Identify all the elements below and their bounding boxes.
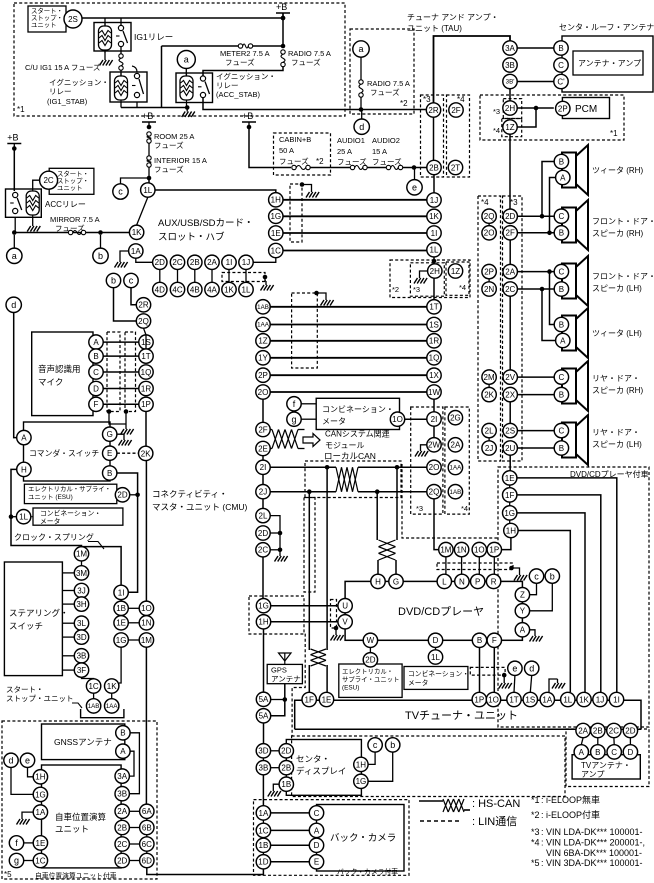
connector 5A lower [256,709,270,723]
svg-text:B: B [559,320,564,329]
wire 1M down to 6A [145,647,147,804]
wire 2B to 1J [433,175,435,193]
svg-text:AUDIO1: AUDIO1 [337,136,365,145]
svg-text:*1: *1 [17,105,25,114]
svg-text:フューズ: フューズ [291,57,321,67]
connector 2D AUX bottom [153,255,167,269]
junction 1E drop [325,465,330,470]
wire trunk 1W-2I [433,399,435,412]
connector Y DVD [515,604,529,618]
wire 2D to C [517,215,554,217]
dashed variant box *2 CABIN+B [274,133,331,175]
svg-text:モジュール: モジュール [325,441,364,450]
wire 3D-2D [271,750,280,752]
relay switch ACC [10,192,22,213]
wire 1I-1B [120,600,122,602]
svg-text:1D: 1D [258,858,268,867]
svg-text:1G: 1G [504,509,515,518]
wire steering stub [62,636,74,638]
svg-text:AUX/USB/SDカード・: AUX/USB/SDカード・ [158,218,254,229]
wire link 6D [129,860,139,862]
fuse METER2 7.5A [238,44,252,48]
wire 1H-V [271,621,338,623]
connector P DVD [471,574,485,588]
junction ESU 2D [135,493,140,498]
svg-text:6C: 6C [142,840,152,849]
wire [488,384,490,387]
svg-text:*4: *4 [459,283,466,292]
connector B tweeter RH [554,154,568,168]
svg-text:スタート・: スタート・ [6,685,44,694]
dashed column box *3 [503,196,523,461]
wire drop to 1E lower [326,665,328,694]
twisted pair local CAN to TV tuner [311,649,327,666]
wire [367,167,386,169]
node d (top) [354,119,369,134]
wire 2A to C [517,271,554,273]
wire 2H to 1T [433,278,435,299]
wire 1E-1I [283,232,427,234]
svg-text:1Z: 1Z [451,267,460,276]
wire [503,675,505,679]
wire 2H-2P [517,107,554,109]
connector 1I start-stop [114,585,128,599]
wire 2U to B [517,447,554,449]
connector 2F CMU [256,422,270,436]
svg-text:B: B [559,444,564,453]
wire RADIO fuse to ACC_STAB switch [203,67,283,76]
connector B rear RH [554,387,568,401]
connector 6A harness [140,804,154,818]
svg-text:スロット・ハブ: スロット・ハブ [158,231,225,243]
svg-text:: VIN LDA-DK*** 200001-,: : VIN LDA-DK*** 200001-, [541,838,645,848]
wire drop H [376,492,378,540]
connector 2A alt [448,438,462,452]
wire 1E-1N [128,622,139,624]
connector 2C start-stop [40,171,58,189]
wire 2F to twisted pair [270,429,272,431]
svg-text:2F: 2F [506,229,515,238]
connector 2I CMU right [427,412,441,426]
svg-text:3B: 3B [259,764,269,773]
svg-text:1A: 1A [542,695,552,704]
svg-text:(IG1_STAB): (IG1_STAB) [47,97,88,106]
wire coil to ground [104,51,106,56]
connector 1T TV tuner [507,692,521,706]
svg-text:コンビネーション・: コンビネーション・ [40,509,101,518]
connector 2R TAU [426,103,440,117]
wire harness to DVD [478,557,480,574]
svg-text:1M: 1M [440,546,451,555]
wire row link [211,270,213,283]
position calc unit box [42,765,122,868]
wire 2C to B [517,288,554,290]
svg-text:2C: 2C [117,840,127,849]
connector 3L steering [74,616,88,630]
connector 2Q CMU [136,314,150,328]
svg-text:*3: *3 [531,827,540,837]
dashed shield box [292,293,318,368]
connector E back camera [309,855,323,869]
wire drop to TV tuner 1F [308,492,310,650]
svg-text:b: b [98,251,103,261]
fuse INTERIOR 15A [147,156,151,167]
svg-text:2J: 2J [259,488,267,497]
node e bottom [20,753,34,767]
fuse AUDIO1 25A [350,165,367,169]
PCM box [562,98,609,119]
connector 2D ESU [115,488,129,502]
connector C back camera [309,806,323,820]
svg-text:2Q: 2Q [138,317,149,326]
svg-text:2K: 2K [484,391,494,400]
connector 1O pair [139,601,153,615]
dashed corner DVD variant [402,464,498,538]
junction tweeter LH A [540,287,545,292]
svg-text:A: A [314,826,320,835]
wire 3B-2B [271,767,280,769]
svg-text:メータ: メータ [408,678,428,687]
svg-text:25 A: 25 A [337,147,352,156]
svg-text:フロント・ドア・: フロント・ドア・ [592,217,654,226]
dashed shield U/V [331,600,337,629]
wire [488,438,490,441]
svg-text:3B: 3B [505,61,515,70]
svg-text:: i-ELOOP無車: : i-ELOOP無車 [541,794,600,805]
connector 1G position [33,787,47,801]
ESU box right [339,664,402,697]
antenna amp box [573,51,643,75]
connector 1P DVD harness [487,542,501,556]
wire bus 2S to +B [82,17,283,19]
svg-text:3F: 3F [77,666,86,675]
junction tweeter LH B [547,269,552,274]
connector 2J TAU alt [482,441,496,455]
connector 2R CMU [136,298,150,312]
connector 4D AUX lower [153,282,167,296]
junction splice DVD [509,566,514,571]
svg-text:1T: 1T [509,695,518,704]
svg-text:2G: 2G [450,414,461,423]
svg-text:1Y: 1Y [258,354,268,363]
wire 1H to 1P [502,538,511,550]
connector 2X TAU speaker out [503,387,517,401]
svg-text:(ESU): (ESU) [342,685,359,692]
dashed variant box mid [390,260,470,298]
svg-text:2C: 2C [258,546,268,555]
wire 1J to 1C edge [253,258,276,263]
connector 1Q TAU [427,351,441,365]
connector 6B harness [140,820,154,834]
svg-text:d: d [359,122,364,132]
node d left [6,297,21,312]
dashed boundary GPS/display variant [292,634,305,736]
svg-text:A: A [93,338,99,347]
svg-text:フューズ: フューズ [225,57,255,67]
svg-text:2D: 2D [281,747,291,756]
connector B antenna [554,41,568,55]
svg-text:フューズ: フューズ [370,87,400,97]
svg-text:*2: *2 [531,810,540,820]
wire 2R to 2B [433,117,435,161]
svg-text:*5: *5 [4,870,12,879]
connector 2E CMU [256,441,270,455]
ground ACC coil [27,222,40,232]
svg-text:e: e [25,756,30,766]
fuse AUDIO2 15A [386,165,402,169]
svg-text:1H: 1H [271,196,281,205]
wire 2X to B [517,394,554,396]
connector 1G DVD [503,506,517,520]
wire coil ground [32,217,34,222]
dashed variant box *1 (ignition relays) [14,3,345,116]
relay IG1 box [94,23,131,52]
dashed column box *3 mid [411,407,443,514]
svg-text:*4: *4 [481,198,489,207]
wire [148,143,150,156]
svg-text:TVチューナ・ユニット: TVチューナ・ユニット [405,709,518,722]
svg-text:スイッチ: スイッチ [9,621,43,631]
connector A back camera [309,823,323,837]
connector 1AA start-stop unit [105,699,119,713]
svg-text:b: b [390,740,395,750]
speaker front door RH [562,200,588,250]
dashed mic shield 2 [125,332,136,412]
connector 2F TAU [449,103,463,117]
svg-text:3H: 3H [76,600,86,609]
wire 1A-C [271,812,310,814]
svg-text:2B: 2B [281,764,291,773]
connector 1P TV tuner [472,692,486,706]
wire 1H to TV 1L [518,531,570,693]
svg-text:F: F [94,400,99,409]
connector D back camera [309,838,323,852]
wire link 6A [129,810,139,812]
svg-text:Y: Y [520,607,526,616]
connector 2D display [279,744,293,758]
svg-text:2P: 2P [484,268,494,277]
wire 1L to 2H [433,257,435,264]
connector 1I TAU [427,226,441,240]
svg-text:3A: 3A [117,772,127,781]
wire 1A-1C [262,820,264,823]
svg-text:2A: 2A [207,258,217,267]
wire bus IG1 output [121,107,187,109]
wire 2D-D [629,738,631,745]
connector A GNSS [116,744,130,758]
wire [488,223,490,225]
svg-text:マイク: マイク [38,377,63,387]
wire clock spring to 1I [82,547,122,586]
wire 2K to 1O [145,461,147,601]
svg-text:2B: 2B [593,726,603,735]
junction e tap [412,165,417,170]
wire MIRROR bus [14,232,129,234]
connector 2C TAU speaker out [503,282,517,296]
wire 3B'-C' [517,81,554,83]
svg-text:2A: 2A [117,807,127,816]
svg-text:C: C [611,748,617,757]
wire 1P-2K [145,412,147,447]
connector 1W TAU [427,385,441,399]
node e [407,180,422,195]
node a (top) [177,51,195,69]
junction [278,548,283,553]
wire link 6B [129,827,139,829]
svg-text:2E: 2E [258,444,268,453]
connector 1P CMU mic [139,397,153,411]
svg-text:C: C [314,809,320,818]
wire c to 1H [368,752,375,764]
connector 1L meter [16,510,30,524]
svg-text:2C: 2C [172,258,182,267]
svg-text:3D: 3D [258,747,268,756]
connector 1R TAU [427,334,441,348]
connector 3A position unit [115,769,129,783]
svg-text:2O: 2O [484,229,495,238]
svg-text:C': C' [557,77,565,86]
dashed box mid 1Z [446,262,469,295]
ground mid 2H [414,274,427,284]
svg-text:1F: 1F [505,491,514,500]
svg-text:c: c [129,276,134,286]
fuse MIRROR 7.5A [68,230,85,234]
connector 4A AUX lower [205,282,219,296]
dashed box TV antenna variant [566,729,649,787]
svg-text:2O: 2O [429,463,440,472]
dashed box mid 2H [410,263,444,296]
connector 2H (PCM net) [503,101,517,115]
wire shield down [125,412,127,426]
connector 1AB alt [448,485,462,499]
svg-text:C: C [93,368,99,377]
svg-text:1K: 1K [224,285,234,294]
wire 2C to coil [33,180,40,188]
wire +B to ACC relay [13,148,15,191]
svg-text:ユニット: ユニット [31,22,57,29]
wire 2D to B net [130,494,138,496]
connector 2D position unit [115,853,129,867]
connector 2B AUX bottom [188,255,202,269]
svg-text:D: D [314,841,320,850]
svg-text:1S: 1S [525,695,535,704]
svg-text:C: C [559,268,565,277]
relay switch IG1_STAB [132,73,144,97]
wire 1A to 2D row [136,258,153,262]
connector D mic [89,381,103,395]
GPS antenna box [267,664,302,683]
connector 1H display [354,757,368,771]
wire steering stub [62,655,74,657]
wire b to 2Q [114,288,137,321]
connector 2S TAU speaker out [503,423,517,437]
connector 2D TV tuner bottom [623,723,637,737]
svg-text:CABIN+B: CABIN+B [279,135,311,144]
junction bus [281,16,286,21]
svg-text:自車位置演算: 自車位置演算 [55,812,107,822]
connector 2A TV tuner bottom [576,723,590,737]
connector F mic [89,397,103,411]
wire 1G-U [271,605,338,607]
wire 1F-1G [509,502,511,506]
wire 2R to 3A [434,36,511,103]
wire d to 1G [11,768,33,795]
svg-text:ストップ・: ストップ・ [31,14,63,22]
wire 1B-D [271,844,310,846]
connector 1Z CMU [256,334,270,348]
junction G drop [395,465,400,470]
svg-text:ACCリレー: ACCリレー [45,200,86,209]
connector 1G AUX [269,209,283,223]
svg-text:2A: 2A [505,268,515,277]
wire A-1S [103,341,139,343]
wire drop to 1F lower [308,665,310,694]
connector 2A position unit [115,804,129,818]
wire 1G-1M [128,639,139,641]
svg-text:B: B [559,391,564,400]
wire 1H-5A [263,629,265,692]
wire 2E-2I [262,456,264,460]
connector G DVD [389,574,403,588]
svg-text:1AB: 1AB [88,703,100,710]
node f [287,397,301,411]
svg-text:*2: *2 [392,285,399,294]
svg-text:3D: 3D [76,633,86,642]
connector B commander [103,466,117,480]
wire B-1T [103,355,139,357]
wire switch down [14,217,16,232]
wire tweeter LH B up [550,272,555,325]
wire 1L to 1K edge [137,197,148,225]
wire 1E to TV 1I [517,478,617,692]
svg-text:1J: 1J [242,258,250,267]
connector A DVD [515,623,529,637]
connector 5A [256,692,270,706]
svg-text:2C: 2C [505,285,515,294]
wire 1B ground [273,784,279,787]
wire 1A ground [549,679,558,692]
wire 2A-A [581,738,583,745]
center display box [286,740,361,796]
svg-text:2F: 2F [258,425,267,434]
svg-text:c: c [534,571,539,581]
wire 3B to 1A [262,775,264,806]
junction H drop [375,489,380,494]
start-stop unit box 2 [49,168,94,194]
svg-text:リレー: リレー [49,87,72,96]
svg-text:1Q: 1Q [141,368,152,377]
svg-text:2K: 2K [141,449,151,458]
svg-text:5A: 5A [259,695,269,704]
wire 1AB-1T [270,306,427,308]
wire 1C-1AB [93,693,95,699]
svg-text:4C: 4C [172,285,182,294]
svg-text:*4: *4 [493,126,500,135]
wire tweeter B down [542,162,554,217]
svg-text:1E: 1E [116,619,126,628]
svg-text:*3: *3 [423,95,431,104]
svg-text:3M: 3M [76,569,87,578]
svg-text:2L: 2L [259,512,268,521]
ESU box left [24,484,116,503]
svg-text:2B: 2B [117,823,127,832]
wire coil feed [104,18,106,28]
wire 1F to TV 1J [517,495,601,692]
svg-text:B: B [559,285,564,294]
wire tweeter LH A up [542,289,556,341]
svg-text:1G: 1G [35,790,46,799]
dashed box position unit variant *5 [2,721,157,879]
